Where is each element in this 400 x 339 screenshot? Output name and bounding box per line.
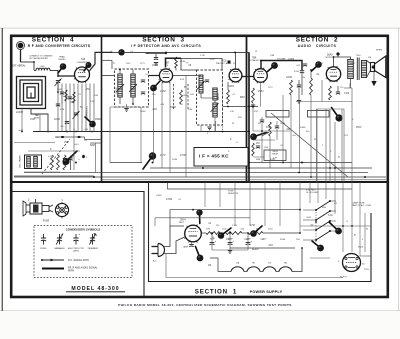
oscillator transformer box	[25, 155, 42, 169]
svg-text:FIXED: FIXED	[40, 248, 47, 250]
detector tube 7C6	[229, 69, 242, 82]
svg-text:117V: 117V	[160, 154, 166, 157]
svg-text:FUSE: FUSE	[228, 191, 234, 193]
audio network components	[290, 64, 313, 103]
svg-text:A.C.: A.C.	[153, 260, 158, 263]
svg-text:10M: 10M	[270, 55, 274, 57]
cathode resistor output	[329, 86, 332, 100]
svg-text:VARIABLE: VARIABLE	[54, 247, 65, 250]
svg-text:2.2M: 2.2M	[160, 90, 165, 93]
svg-text:250: 250	[145, 52, 150, 55]
ground under 1st IF	[124, 108, 128, 110]
svg-text:68M: 68M	[322, 207, 326, 209]
capacitor mid section4	[65, 121, 69, 123]
page edge right	[397, 28, 399, 311]
svg-text:47M: 47M	[250, 224, 255, 227]
svg-text:1ST AUDIO: 1ST AUDIO	[249, 59, 260, 62]
section2 verticals to buses	[253, 80, 352, 182]
test point mid chain	[221, 228, 231, 236]
svg-text:.002: .002	[152, 108, 157, 111]
padder trimmer 600KC	[73, 111, 80, 119]
svg-text:470M: 470M	[180, 61, 185, 63]
wire: audio output to section 2	[223, 106, 258, 108]
svg-text:.002: .002	[60, 126, 64, 128]
svg-text:100M: 100M	[286, 77, 292, 79]
svg-text:470M: 470M	[166, 198, 172, 201]
svg-text:220M: 220M	[244, 239, 249, 241]
test point on AVC wire	[118, 49, 124, 55]
svg-text:250: 250	[216, 225, 219, 227]
svg-text:100M: 100M	[152, 64, 158, 67]
svg-text:SECTION 2: SECTION 2	[296, 37, 339, 44]
svg-text:TRIMMER: TRIMMER	[87, 248, 98, 250]
svg-text:2.2M: 2.2M	[232, 225, 237, 227]
test point: oscillator trimmer	[58, 67, 63, 74]
svg-text:15M: 15M	[64, 142, 69, 144]
svg-text:10M: 10M	[94, 95, 98, 97]
svg-text:R F AND CONVERTER CIRCUITS: R F AND CONVERTER CIRCUITS	[28, 44, 91, 48]
test point: output grid	[312, 65, 319, 72]
svg-text:.004: .004	[318, 63, 323, 65]
svg-text:250V: 250V	[258, 90, 264, 93]
svg-text:2.2M: 2.2M	[200, 55, 205, 57]
dotted AVC feed line	[222, 76, 224, 132]
svg-text:470M: 470M	[180, 155, 186, 157]
svg-text:RECT.: RECT.	[179, 222, 185, 224]
svg-text:330M: 330M	[280, 239, 285, 241]
svg-text:7A8: 7A8	[81, 58, 86, 61]
svg-text:470M: 470M	[294, 71, 299, 73]
bus wire y180	[101, 179, 386, 181]
test point: switch	[329, 222, 339, 231]
svg-text:2.2M: 2.2M	[344, 93, 349, 95]
svg-text:15M: 15M	[188, 109, 192, 111]
svg-text:117V: 117V	[344, 135, 349, 137]
svg-text:10M: 10M	[266, 126, 271, 129]
svg-text:+: +	[78, 233, 80, 237]
svg-text:.01: .01	[145, 74, 148, 76]
svg-text:PHILCO RADIO MODEL 48-300. CEN: PHILCO RADIO MODEL 48-300. CENTRALIZED S…	[118, 303, 292, 307]
svg-text:.0001: .0001	[18, 130, 24, 132]
legend symbol: variable condenser	[59, 234, 61, 238]
svg-text:7B4: 7B4	[284, 263, 287, 265]
wire: screen feed into section 3	[102, 59, 113, 61]
legend box MODEL 48-300	[13, 192, 145, 297]
junction dots section2	[252, 56, 334, 178]
svg-text:I F = 455 KC: I F = 455 KC	[199, 154, 229, 159]
ground under 2nd IF	[207, 126, 211, 128]
section divider: section 3 / section 2	[246, 36, 248, 182]
resistor cluster section4 bottom	[51, 155, 73, 170]
svg-text:47M: 47M	[210, 59, 215, 61]
grid resistor 1st audio	[252, 88, 255, 103]
osc grid cap and resistor cluster	[56, 90, 89, 118]
svg-text:.004: .004	[292, 135, 296, 137]
wires from plug	[163, 226, 185, 254]
svg-text:220M: 220M	[288, 58, 294, 61]
svg-text:3-30: 3-30	[270, 158, 276, 161]
svg-text:.0001: .0001	[228, 85, 235, 88]
svg-text:PATH: PATH	[68, 269, 74, 272]
svg-text:1600KC: 1600KC	[58, 59, 66, 61]
antenna terminal	[17, 42, 25, 63]
svg-text:2ND DET., A.V.C.: 2ND DET., A.V.C.	[216, 62, 232, 65]
wire: aerial to loop	[21, 61, 35, 63]
fuse-holder drawing	[23, 198, 53, 217]
svg-text:PART OF A.C. CORD: PART OF A.C. CORD	[352, 204, 372, 207]
svg-text:OF THE RECEIVER: OF THE RECEIVER	[29, 58, 48, 60]
ground under speaker	[373, 72, 375, 82]
svg-text:LAMP: LAMP	[183, 246, 189, 249]
svg-text:SECTION 1: SECTION 1	[195, 289, 237, 296]
svg-text:117V: 117V	[140, 63, 145, 65]
test point: padder	[85, 117, 93, 124]
svg-text:SECTION 4: SECTION 4	[32, 37, 75, 44]
section3 small horizontals	[110, 76, 216, 132]
test point: IF output	[143, 156, 153, 169]
svg-text:560M: 560M	[272, 154, 278, 156]
section2 component cluster lower left	[252, 117, 290, 157]
main vertical bus x249	[248, 52, 250, 182]
coupling capacitor	[242, 71, 304, 95]
page edge bottom	[0, 310, 400, 312]
svg-text:SECTION 3: SECTION 3	[142, 37, 185, 44]
test point top right of section 4	[84, 65, 89, 71]
loop antenna spiral	[17, 77, 46, 109]
svg-text:47M: 47M	[180, 79, 184, 81]
svg-text:330M: 330M	[170, 107, 176, 109]
svg-text:SPKR: SPKR	[376, 50, 382, 52]
svg-text:POWER SUPPLY: POWER SUPPLY	[250, 290, 283, 294]
socket alignment view	[55, 199, 68, 219]
svg-text:10M: 10M	[226, 239, 231, 241]
svg-text:220M: 220M	[280, 123, 285, 125]
bus wire y168	[150, 167, 372, 169]
AC plug	[152, 244, 165, 257]
svg-text:T100: T100	[356, 55, 362, 57]
svg-text:G: G	[346, 221, 348, 223]
test point above rectifier	[199, 213, 201, 224]
svg-text:56: 56	[255, 51, 257, 53]
filament labels	[236, 263, 287, 265]
rectifier tube 35Y4	[185, 225, 202, 242]
junction dots section3	[119, 52, 250, 133]
legend: DC signal path arrow	[41, 259, 89, 263]
svg-text:.0001: .0001	[272, 151, 279, 153]
electrolytic filter caps	[210, 233, 253, 253]
speaker	[367, 56, 386, 78]
test point: osc coil	[66, 151, 77, 162]
capacitor under rectifier	[189, 244, 193, 246]
svg-text:D.C. SIGNAL PATH: D.C. SIGNAL PATH	[68, 259, 89, 262]
svg-text:RESISTOR: RESISTOR	[228, 193, 239, 195]
legend: RF IF audio signal path thick line	[42, 266, 98, 272]
test point: 1st IF secondary	[154, 81, 161, 88]
wire: top plate run section2	[261, 61, 302, 71]
svg-text:15M: 15M	[264, 147, 268, 149]
wire: AVC into IF can	[102, 75, 115, 77]
svg-text:35Z3: 35Z3	[358, 247, 364, 249]
oscillator section verticals	[58, 84, 94, 132]
svg-text:1M: 1M	[368, 57, 371, 59]
svg-text:OUTPUT: OUTPUT	[325, 57, 334, 59]
wire: left loop of section1	[168, 183, 353, 272]
wire verticals below loop	[22, 109, 40, 132]
test point: lower switch	[312, 241, 321, 248]
svg-text:470M: 470M	[63, 96, 69, 98]
svg-text:2.2M: 2.2M	[90, 101, 95, 103]
svg-text:10M: 10M	[190, 94, 194, 96]
svg-text:EXT. AERIAL: EXT. AERIAL	[12, 65, 26, 68]
svg-text:20M: 20M	[206, 229, 210, 231]
svg-text:250M: 250M	[183, 95, 188, 97]
svg-text:AUDIO CIRCUITS: AUDIO CIRCUITS	[298, 44, 337, 48]
1st audio tube 7B4	[254, 69, 268, 83]
svg-text:15M: 15M	[30, 118, 35, 121]
legend symbol: fixed condenser	[43, 234, 45, 238]
diode load resistors	[215, 82, 229, 132]
page edge left	[1, 28, 3, 311]
svg-text:OF VOLUME: OF VOLUME	[306, 192, 318, 194]
loop coupling winding	[36, 68, 50, 70]
svg-text:.02: .02	[280, 145, 283, 147]
bus wire y162	[110, 162, 142, 164]
test point: output plate circuit	[332, 108, 340, 119]
bus wire y131 (AVC line)	[33, 131, 249, 133]
svg-text:.0001: .0001	[74, 144, 79, 146]
svg-text:FUSE: FUSE	[43, 220, 50, 223]
outer schematic frame	[11, 36, 388, 297]
svg-text:(DRY): (DRY)	[73, 250, 79, 252]
1st IF transformer can	[115, 69, 149, 107]
svg-text:LOOP: LOOP	[16, 110, 23, 114]
bus wire y177	[14, 176, 386, 178]
divider: bottom of sections 2,3,4	[10, 181, 389, 183]
svg-text:2ND I.F.: 2ND I.F.	[218, 92, 220, 100]
svg-text:3-30: 3-30	[328, 215, 333, 217]
output tube 50A5	[326, 67, 340, 81]
section3 verticals to buses	[110, 76, 196, 178]
svg-text:90M: 90M	[256, 229, 260, 231]
wire BLACK lead	[230, 247, 295, 249]
svg-text:220M: 220M	[54, 119, 60, 121]
section4 lower-right wires	[55, 128, 102, 173]
legend symbol: trimmer condenser	[92, 234, 94, 238]
svg-text:7C6: 7C6	[268, 263, 271, 265]
svg-text:CONDENSER SYMBOLS: CONDENSER SYMBOLS	[66, 228, 101, 232]
svg-text:15M: 15M	[296, 239, 300, 241]
wire: converter plate to section 3	[89, 52, 112, 71]
MODEL 48-300 label	[66, 286, 125, 292]
svg-text:47M: 47M	[254, 111, 258, 113]
scattered component value labels	[18, 51, 371, 271]
svg-text:1M: 1M	[180, 104, 183, 106]
svg-text:100M: 100M	[172, 159, 177, 161]
output transformer T1	[334, 52, 367, 88]
svg-text:100M: 100M	[57, 89, 62, 91]
long diagonal pointer line	[271, 113, 348, 177]
svg-text:MARKED AVC: MARKED AVC	[86, 105, 89, 118]
svg-text:600KC: 600KC	[34, 118, 41, 120]
page edge top	[0, 27, 400, 29]
IF frequency note box	[194, 148, 248, 167]
wire: det tube plate feed	[235, 52, 237, 69]
svg-text:I F DETECTOR AND AVC CIRC: I F DETECTOR AND AVC CIRCUITS	[131, 44, 202, 48]
section4 bottom horizontal wires	[14, 143, 94, 177]
section1 verticals	[205, 182, 365, 256]
svg-text:250V: 250V	[364, 269, 370, 271]
svg-text:1M: 1M	[256, 142, 259, 145]
tuning condenser C1A	[55, 79, 62, 93]
junction dots section1	[192, 209, 353, 249]
svg-text:330M: 330M	[350, 63, 355, 65]
svg-text:117V: 117V	[268, 87, 273, 89]
section divider: section 4 / section 3	[101, 36, 103, 182]
svg-text:H: H	[338, 156, 340, 159]
svg-text:68M: 68M	[256, 159, 260, 161]
svg-text:1M: 1M	[208, 265, 211, 267]
2nd IF transformer can	[181, 59, 236, 126]
on-off switch stack	[303, 200, 336, 242]
converter tube 7A8	[75, 67, 90, 82]
svg-text:S.W. PART: S.W. PART	[306, 189, 317, 192]
wire: bottom run of section1	[166, 277, 343, 279]
section 1 power-supply box	[149, 182, 372, 282]
svg-text:MODEL 48-300: MODEL 48-300	[71, 286, 119, 292]
svg-text:68M: 68M	[240, 97, 245, 99]
svg-text:1ST I.F.: 1ST I.F.	[116, 87, 118, 94]
IF amplifier tube 7B7	[159, 69, 172, 82]
test point: 2nd IF adjustment	[254, 133, 267, 137]
svg-text:68M: 68M	[90, 144, 95, 147]
junctions on buses	[75, 131, 366, 178]
svg-text:⅜ AMP. FUSE: ⅜ AMP. FUSE	[352, 202, 365, 205]
small can boxes lower section2	[266, 111, 289, 118]
svg-text:.004: .004	[268, 244, 273, 247]
svg-text:250V: 250V	[126, 63, 131, 65]
svg-text:OSC. TRANS.: OSC. TRANS.	[19, 154, 22, 168]
legend symbol: electrolytic condenser	[75, 234, 77, 238]
svg-text:3-30: 3-30	[230, 111, 234, 113]
section1 horizontals	[155, 218, 371, 258]
filter resistor chain	[201, 232, 300, 235]
svg-text:.05: .05	[110, 51, 113, 53]
svg-text:7B7: 7B7	[252, 263, 255, 265]
svg-text:220M: 220M	[140, 111, 146, 113]
tuning gang dashed link	[42, 139, 70, 174]
junction dots section4	[21, 61, 93, 132]
svg-text:1M: 1M	[56, 137, 59, 139]
svg-text:250V: 250V	[356, 127, 362, 129]
boxed value label 560M	[264, 150, 286, 161]
svg-text:.0001: .0001	[306, 217, 312, 219]
svg-text:.002: .002	[286, 129, 291, 131]
test point below rectifier	[196, 247, 201, 259]
svg-text:455: 455	[334, 203, 337, 205]
volume control test point	[268, 66, 275, 72]
svg-text:G: G	[314, 139, 316, 141]
grid cap + screen parts near 7B7	[146, 54, 196, 111]
svg-text:100M: 100M	[156, 195, 162, 197]
section1 row value labels	[206, 229, 273, 241]
filament string	[222, 248, 302, 272]
test point right chain	[254, 226, 263, 234]
bus wire y172.5	[24, 172, 368, 174]
svg-text:47M: 47M	[60, 109, 64, 111]
wire: top AVC run y50	[112, 51, 249, 53]
wire: loop bottom to pad	[31, 109, 48, 132]
ballast tube	[343, 254, 366, 272]
svg-text:330M: 330M	[95, 118, 101, 121]
svg-text:330M: 330M	[300, 127, 306, 129]
wire: grid line to converter	[57, 71, 59, 77]
condenser symbols dashed box	[34, 226, 132, 278]
svg-text:G: G	[232, 122, 234, 125]
